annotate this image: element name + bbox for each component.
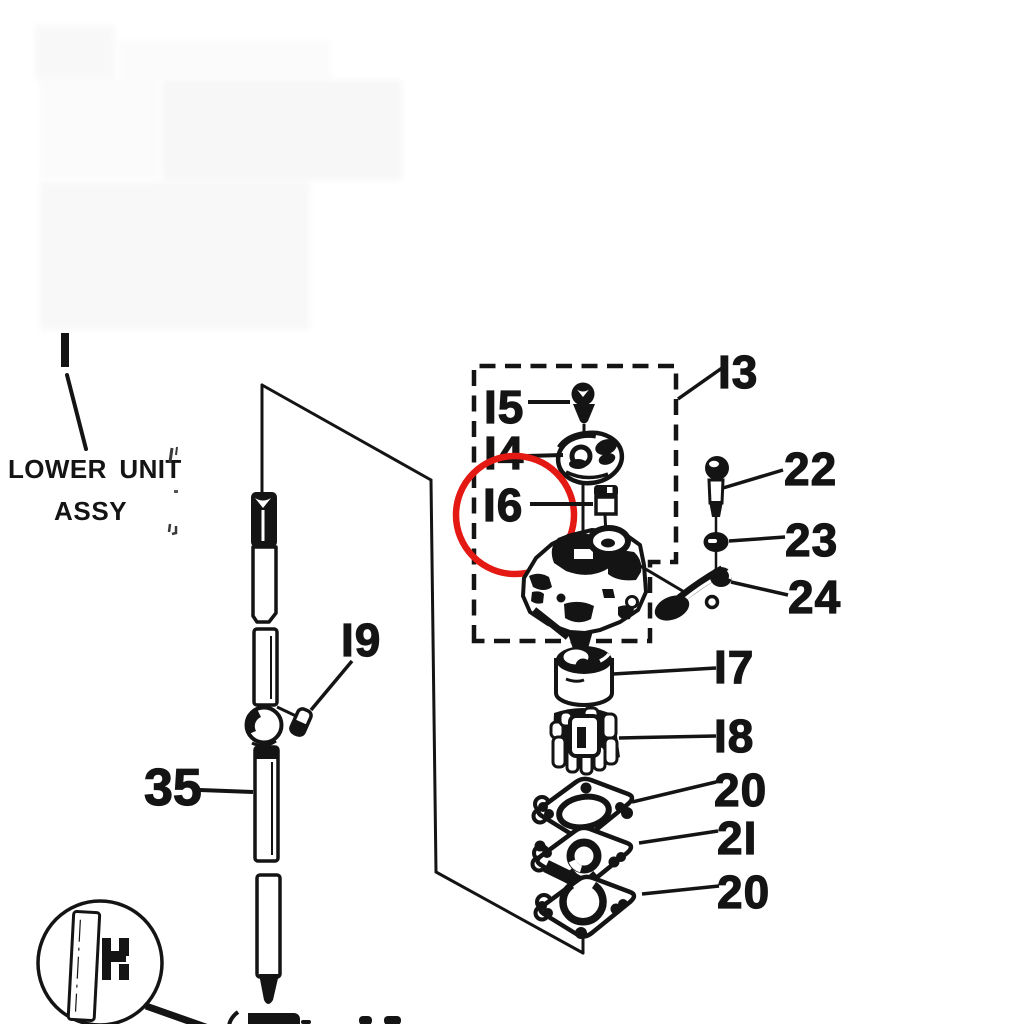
plate 21 [533,828,632,888]
dashed box 13 [474,366,676,641]
svg-text:ASSY: ASSY [54,496,127,526]
leader for label 16 [530,502,593,506]
leader for label 20 top [632,782,716,802]
shaft section D with tip [257,875,280,977]
screw 15 [572,383,596,433]
bushing 16 [594,485,618,514]
bolt 22 [705,456,729,535]
gasket 20 top [534,779,634,844]
bottom partial glyphs [229,1012,238,1024]
shaft section C [255,747,278,861]
svg-text:24: 24 [788,571,841,623]
plate 14 [555,429,625,487]
shaft pointed tip [259,974,279,1004]
wire housing to cam 24 [627,558,686,593]
lower unit panel outline [262,385,583,953]
shift cam 24 [651,567,732,625]
leader for label 18 [619,736,716,738]
link line shaft to pin 19 [277,707,296,716]
svg-text:2I: 2I [717,812,757,864]
svg-text:I9: I9 [341,614,381,666]
leader for label 19 [311,661,352,710]
svg-text:I7: I7 [714,641,754,693]
leader for label 1 [67,375,86,449]
pump housing body [523,528,646,652]
pin 19 [289,707,313,738]
leader for label 14 [527,455,563,456]
leader for label 23 [729,537,785,541]
leader for label 20 bottom [642,886,719,894]
svg-text:I5: I5 [484,381,524,433]
detail rod [68,911,100,1020]
wire screw15 to plate14 [582,432,586,455]
svg-text:I8: I8 [714,710,754,762]
leader for label 21 [639,831,718,843]
impeller 18 [551,708,620,774]
leader for label 24 [731,582,788,595]
wire plate14 to bushing16 [582,482,585,534]
stray small mark [169,524,176,534]
drive shaft 35 : splined top section [251,492,277,547]
leader for label 15 [528,400,570,404]
red highlight circle [456,456,574,574]
svg-text:20: 20 [717,866,770,918]
svg-text:35: 35 [144,759,202,817]
leader for label 17 [613,668,716,674]
break artifact on panel top edge [317,408,345,428]
svg-text:I6: I6 [483,479,523,531]
washer 23 [704,532,729,572]
shaft section A [253,547,276,622]
shaft ball joint [247,708,282,746]
leader for label 22 [723,470,783,488]
detail clip mark [102,938,129,980]
stray apostrophe mark [170,448,172,462]
svg-text:I3: I3 [718,346,758,398]
stray dot [174,490,178,493]
label 1 [61,333,69,367]
gasket 20 bottom [536,877,635,939]
svg-text:20: 20 [714,764,767,816]
svg-text:22: 22 [784,443,837,495]
shaft section B [254,629,277,705]
wire bushing16 to housing [605,515,606,536]
detail pointer line [146,1006,214,1024]
svg-text:23: 23 [785,514,838,566]
cup 17 [556,646,612,705]
leader for label 35 [200,790,253,792]
scan smudge blocks top-left [35,25,402,330]
leader for label 13 [678,368,722,399]
svg-text:LOWER UNIT: LOWER UNIT [8,454,182,484]
detail circle [38,901,162,1024]
